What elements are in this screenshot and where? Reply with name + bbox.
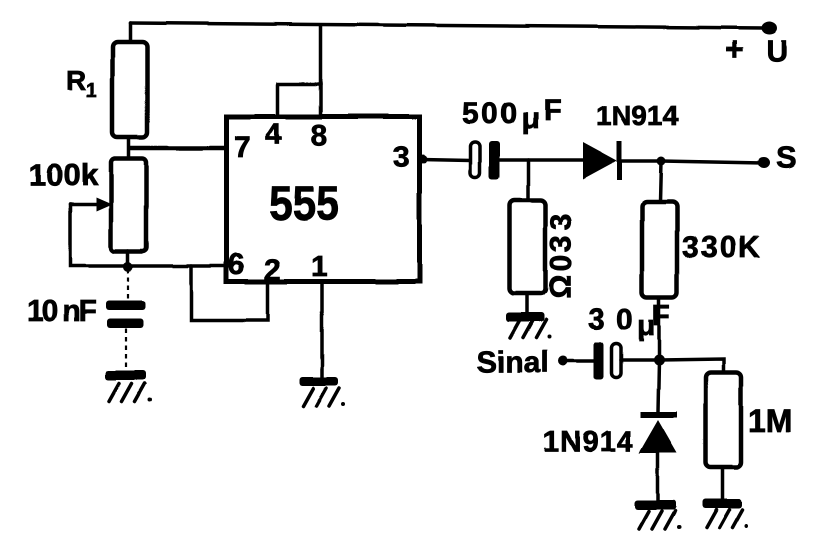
wire pin 2 loop [191, 266, 268, 320]
svg-text:0: 0 [545, 255, 578, 272]
svg-text:8: 8 [311, 119, 328, 152]
svg-text:555: 555 [269, 178, 339, 231]
wire 330K bottom [657, 297, 661, 360]
svg-text:100k: 100k [29, 157, 99, 192]
svg-text:1N914: 1N914 [543, 426, 633, 458]
node B [657, 157, 666, 166]
wire diode to ground [656, 453, 660, 500]
terminal +U dot [761, 22, 777, 35]
wire branch to 330ohm [526, 160, 530, 200]
svg-text:7: 7 [234, 131, 251, 164]
svg-text:Sinal: Sinal [477, 346, 549, 379]
capacitor C 10nF [127, 269, 129, 300]
ground G1 [105, 371, 146, 381]
terminal S dot [758, 158, 770, 169]
svg-text:U: U [766, 35, 788, 68]
wire Sinal [563, 359, 594, 363]
ground G5 [702, 499, 742, 509]
wire 100k bottom [126, 251, 130, 267]
resistor 330K [642, 202, 677, 297]
resistor R1 [113, 42, 148, 137]
wire pin 8 [319, 25, 323, 116]
wire to S [661, 161, 763, 163]
terminal Sinal dot [558, 356, 568, 366]
wire pin 6 [128, 264, 226, 268]
ground G3 [506, 313, 544, 322]
diode D2 1N914 [640, 412, 677, 418]
diode D1 1N914 [583, 142, 617, 179]
node junction A [123, 262, 133, 272]
wire node to 1M [659, 359, 724, 373]
wire cap to node [621, 358, 659, 362]
svg-text:3: 3 [545, 214, 578, 231]
wire R1 to 100k [127, 137, 131, 159]
resistor 1M [706, 373, 742, 468]
wire pin 1 [320, 282, 324, 377]
svg-text:10 nF: 10 nF [27, 295, 97, 328]
op-amp U1 IC 555 [227, 117, 420, 282]
svg-text:1: 1 [311, 250, 328, 283]
wire pin 3 [421, 159, 471, 160]
svg-text:6: 6 [228, 248, 245, 281]
wire 330ohm bottom [525, 294, 529, 313]
wire pin 7 [129, 146, 226, 151]
wire top +U rail [130, 23, 770, 28]
svg-text:1: 1 [86, 80, 97, 102]
node C [654, 355, 665, 366]
svg-text:2: 2 [264, 254, 281, 287]
node pin 3 [419, 155, 428, 164]
svg-text:3: 3 [393, 141, 410, 174]
svg-text:4: 4 [265, 118, 282, 151]
svg-text:S: S [776, 140, 797, 175]
wire pin 4 [278, 84, 321, 116]
wire R1 top [128, 23, 132, 43]
svg-text:1M: 1M [748, 403, 792, 439]
pot wiper arrow [70, 202, 98, 206]
wire node to diode D2 [658, 360, 659, 412]
capacitor C 500uF [471, 142, 481, 177]
wire cap to diode [499, 158, 584, 162]
svg-text:3: 3 [545, 236, 578, 253]
wire wiper feedback [70, 204, 128, 266]
wire diode to node [622, 159, 661, 163]
svg-text:+: + [725, 31, 744, 67]
wire node to 330K [660, 161, 661, 202]
resistor 100k [111, 159, 147, 252]
capacitor C 30uF [594, 342, 604, 380]
svg-text:1N914: 1N914 [596, 100, 679, 131]
ground G2 [299, 377, 338, 386]
svg-text:R: R [66, 65, 86, 96]
resistor 330ohm [510, 200, 546, 294]
ground G4 [635, 500, 676, 510]
wire 1M bottom [720, 468, 724, 499]
svg-text:Ω: Ω [544, 275, 577, 299]
svg-text:330K: 330K [682, 231, 762, 264]
